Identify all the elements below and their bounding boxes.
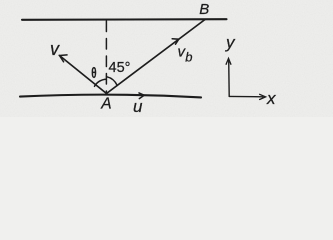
svg-text:y: y [225,33,236,52]
svg-text:A: A [100,95,111,112]
svg-text:45°: 45° [109,60,131,76]
svg-text:b: b [185,50,192,65]
svg-text:θ: θ [91,65,97,81]
svg-text:B: B [199,1,209,18]
svg-text:v: v [50,39,60,59]
svg-text:u: u [133,97,143,116]
svg-text:x: x [266,89,276,108]
